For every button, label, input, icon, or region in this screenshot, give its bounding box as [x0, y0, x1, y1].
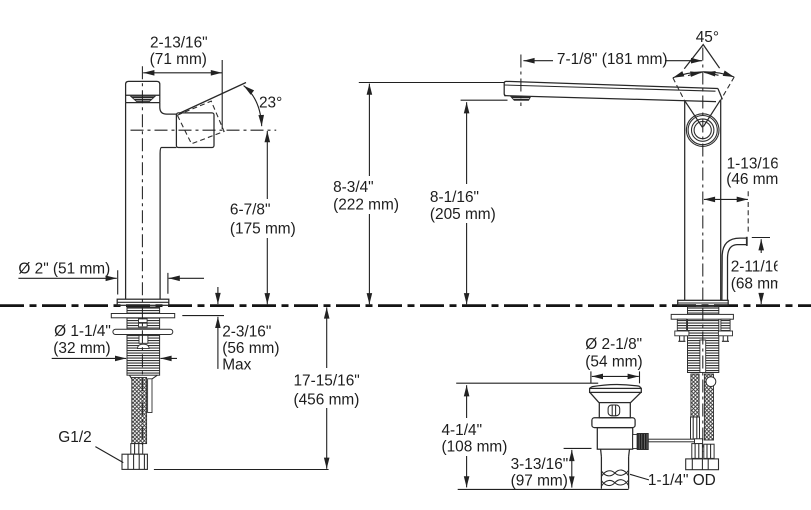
svg-text:Ø 2" (51 mm): Ø 2" (51 mm) — [18, 260, 110, 277]
svg-text:G1/2: G1/2 — [58, 429, 91, 446]
svg-text:2-13/16": 2-13/16" — [150, 35, 208, 52]
svg-text:8-1/16": 8-1/16" — [430, 189, 479, 206]
svg-text:1-1/4" OD: 1-1/4" OD — [648, 472, 716, 489]
svg-text:17-15/16": 17-15/16" — [294, 373, 360, 390]
svg-text:Ø 1-1/4": Ø 1-1/4" — [54, 323, 111, 340]
svg-text:(97 mm): (97 mm) — [511, 472, 568, 489]
svg-text:(46 mm): (46 mm) — [726, 171, 783, 188]
svg-text:(456 mm): (456 mm) — [294, 391, 360, 408]
svg-text:7-1/8" (181 mm): 7-1/8" (181 mm) — [557, 51, 668, 68]
svg-text:(56 mm): (56 mm) — [222, 340, 279, 357]
svg-text:(222 mm): (222 mm) — [333, 196, 399, 213]
svg-text:23°: 23° — [259, 95, 282, 112]
svg-text:Max: Max — [222, 357, 251, 374]
svg-text:2-3/16": 2-3/16" — [222, 323, 271, 340]
svg-text:3-13/16": 3-13/16" — [511, 456, 569, 473]
svg-text:(32 mm): (32 mm) — [53, 340, 110, 357]
svg-text:4-1/4": 4-1/4" — [442, 422, 483, 439]
svg-text:6-7/8": 6-7/8" — [230, 201, 271, 218]
svg-text:Ø 2-1/8": Ø 2-1/8" — [585, 336, 642, 353]
svg-text:8-3/4": 8-3/4" — [333, 179, 374, 196]
svg-text:(175 mm): (175 mm) — [230, 221, 296, 238]
svg-text:(205 mm): (205 mm) — [430, 206, 496, 223]
svg-text:(54 mm): (54 mm) — [585, 353, 642, 370]
svg-text:(108 mm): (108 mm) — [442, 438, 508, 455]
svg-text:45°: 45° — [696, 29, 719, 46]
svg-text:(71 mm): (71 mm) — [150, 51, 207, 68]
